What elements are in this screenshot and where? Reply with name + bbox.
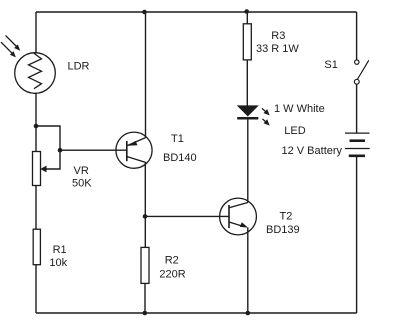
wire VR wiper (45, 150, 60, 169)
label T2 (280, 210, 293, 222)
wire R3 to LED (246, 60, 248, 106)
label 50K (72, 178, 92, 190)
wire LDR to VR (35, 93, 37, 152)
svg-text:R2: R2 (165, 255, 179, 267)
junction dot top rail at R3 column (244, 9, 249, 14)
svg-text:50K: 50K (72, 178, 92, 190)
label 10k (49, 257, 67, 269)
label T1 (171, 133, 184, 145)
label LDR (68, 61, 90, 73)
wire rail to switch (356, 12, 358, 60)
wire R1 to bottom rail (35, 265, 37, 313)
svg-text:VR: VR (74, 165, 89, 177)
label 12 V Battery (282, 145, 343, 157)
svg-text:BD140: BD140 (163, 152, 197, 164)
transistor T2 BD139 NPN (220, 198, 257, 235)
label 220R (159, 269, 185, 281)
svg-text:T1: T1 (171, 133, 184, 145)
wire T1 base (60, 149, 127, 151)
resistor R1 (33, 229, 40, 265)
wire junction branch to wiper column (36, 126, 60, 150)
svg-text:S1: S1 (324, 59, 337, 71)
svg-text:10k: 10k (49, 257, 67, 269)
LDR light arrow upper (6, 35, 21, 50)
LED emission arrow lower (262, 119, 269, 126)
junction dot top rail at T1 column (142, 10, 147, 15)
label 33 R 1W (256, 43, 299, 55)
svg-text:12 V Battery: 12 V Battery (282, 145, 343, 157)
wire rail to R3 (246, 12, 248, 24)
switch S1 (354, 60, 368, 84)
svg-text:33 R 1W: 33 R 1W (256, 43, 299, 55)
wire VR to R1 (35, 186, 37, 230)
junction dot bottom rail at R2 column (143, 311, 148, 316)
svg-text:1 W White: 1 W White (274, 103, 325, 115)
LED diode (237, 105, 259, 118)
label BD139 (266, 224, 300, 236)
LDR photoresistor (15, 53, 56, 94)
junction dot T2 base on R2 column (143, 214, 148, 219)
junction dot bottom rail at T2 column (246, 311, 251, 316)
battery 12V (345, 133, 370, 156)
label VR (74, 165, 89, 177)
label S1 (324, 59, 337, 71)
wire top rail (36, 11, 357, 13)
wire battery to bottom rail (356, 157, 358, 314)
svg-text:R1: R1 (53, 244, 67, 256)
wire bottom rail (36, 312, 357, 314)
potentiometer VR body (33, 152, 41, 186)
svg-text:LDR: LDR (68, 61, 90, 73)
wire T2 base (145, 215, 229, 217)
junction dot wiper and T1 base (58, 148, 63, 153)
transistor T1 BD140 PNP (116, 132, 152, 168)
wire T2 emitter to bottom rail (247, 228, 249, 314)
LDR light arrow lower (1, 42, 16, 57)
svg-text:LED: LED (284, 125, 305, 137)
resistor R3 (243, 24, 251, 60)
label R1 (53, 244, 67, 256)
label R2 (165, 255, 179, 267)
potentiometer VR wiper arrowhead (40, 166, 46, 173)
wire LED to T2 collector (247, 118, 249, 202)
label LED (284, 125, 305, 137)
junction dot LDR to VR branch (34, 124, 39, 129)
label 1 W White (274, 103, 325, 115)
svg-text:T2: T2 (280, 210, 293, 222)
wire R2 to bottom rail (144, 283, 146, 313)
LED emission arrow upper (262, 108, 270, 115)
svg-text:R3: R3 (271, 30, 285, 42)
resistor R2 (141, 247, 149, 283)
wire switch to battery (356, 84, 358, 133)
wire rail to T1 emitter (145, 12, 147, 138)
wire left column top (rail to LDR) (35, 12, 37, 54)
wire T1 collector to R2 (144, 163, 146, 248)
svg-text:BD139: BD139 (266, 224, 300, 236)
label BD140 (163, 152, 197, 164)
svg-text:220R: 220R (159, 269, 185, 281)
label R3 (271, 30, 285, 42)
